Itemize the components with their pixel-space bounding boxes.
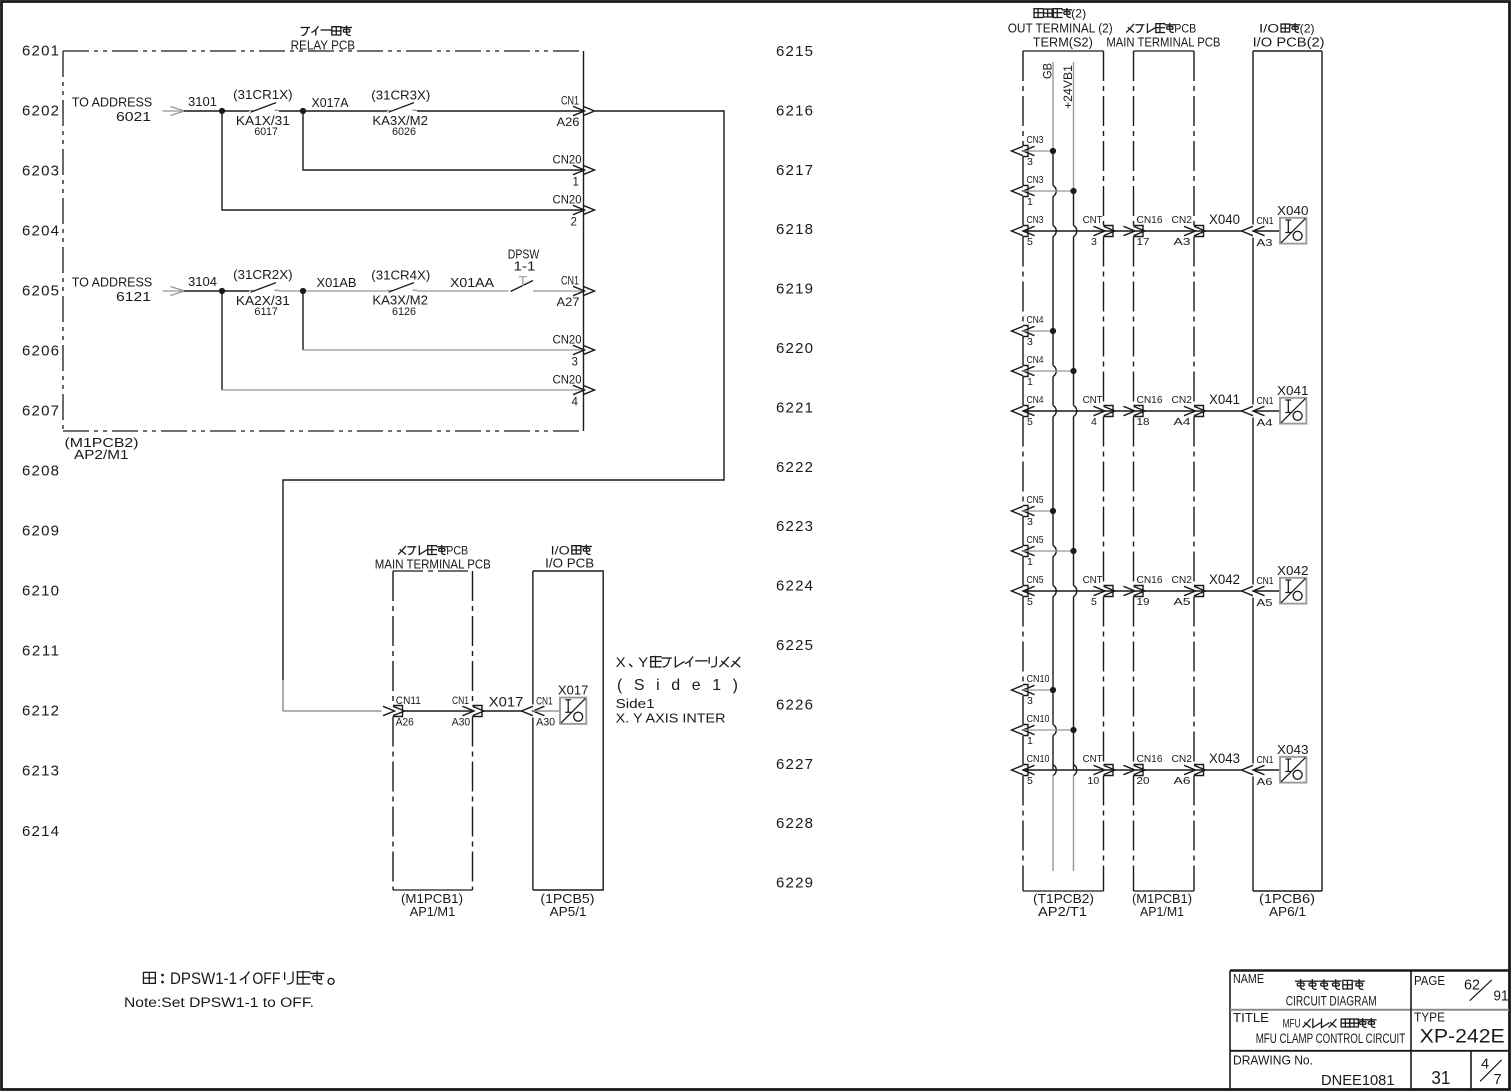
wire from CN1 A26 down to main terminal PCB CN11 A26: [283, 111, 724, 680]
svg-text:X: X: [616, 655, 626, 670]
svg-text:62: 62: [1464, 978, 1480, 994]
svg-text:CN16: CN16: [1137, 214, 1163, 226]
svg-text:6208: 6208: [22, 463, 59, 480]
svg-text:(31CR1X): (31CR1X): [233, 87, 293, 102]
wire to CN1 A26: [417, 110, 584, 112]
connector CN16 pin 20 into main terminal PCB: [1124, 765, 1136, 774]
signal row X043: CN10 pin 5 through CNT 10: [1012, 765, 1024, 774]
svg-text:NAME: NAME: [1233, 972, 1264, 986]
svg-text:3: 3: [1027, 336, 1033, 348]
svg-text:TYPE: TYPE: [1414, 1011, 1445, 1025]
svg-text:6227: 6227: [776, 756, 813, 773]
svg-text:A3: A3: [1257, 237, 1273, 249]
svg-text:5: 5: [1027, 416, 1033, 428]
connector CN2 pin A4 out of main terminal PCB: [1184, 406, 1196, 415]
connector CN10 pin 3 from GB bus: [1012, 685, 1024, 694]
connector pin CN20 pin2: [573, 205, 585, 214]
connector CN3 pin 1 from +24VB1 bus: [1012, 186, 1024, 195]
input arrow from address 6121: [163, 290, 184, 292]
wire X01AB: [279, 290, 387, 292]
svg-text:A5: A5: [1257, 597, 1273, 609]
connector pin CN1 A27 (relay PCB edge): [573, 286, 585, 295]
connector CNT pin 5 out of terminal box: [1094, 586, 1106, 595]
svg-text:A30: A30: [452, 717, 471, 729]
relay contact 31CR4X (KA3X/M2): [387, 290, 392, 292]
wire CN1 to X042 I/O module: [1253, 590, 1280, 592]
svg-text:X. Y AXIS INTER: X. Y AXIS INTER: [616, 712, 726, 726]
svg-text:TO ADDRESS: TO ADDRESS: [72, 95, 153, 110]
svg-text:6205: 6205: [22, 283, 59, 300]
svg-text:CN20: CN20: [553, 375, 582, 387]
svg-text:X042: X042: [1209, 572, 1240, 587]
svg-text:(31CR4X): (31CR4X): [371, 268, 430, 283]
svg-text:AP2/M1: AP2/M1: [74, 447, 129, 462]
svg-text:CN5: CN5: [1027, 494, 1044, 506]
svg-text:CN16: CN16: [1137, 574, 1163, 586]
connector CN3 pin 3 from GB bus: [1012, 146, 1024, 155]
svg-text:6226: 6226: [776, 696, 813, 713]
svg-text:6228: 6228: [776, 815, 813, 832]
svg-text:17: 17: [1137, 236, 1150, 248]
svg-text:(31CR3X): (31CR3X): [371, 88, 430, 103]
svg-text:X017: X017: [489, 694, 524, 710]
wire CN1 to X040 I/O module: [1253, 230, 1280, 232]
svg-text:MFU CLAMP CONTROL CIRCUIT: MFU CLAMP CONTROL CIRCUIT: [1256, 1031, 1406, 1046]
main terminal PCB boundary box (M1PCB1): [393, 570, 473, 572]
signal row X041: CN4 pin 5 through CNT 4: [1012, 406, 1024, 415]
svg-text:CN4: CN4: [1027, 314, 1044, 326]
svg-text:3: 3: [1027, 695, 1033, 707]
svg-text:CN1: CN1: [452, 695, 469, 707]
svg-text:4: 4: [1091, 416, 1097, 428]
connector CNT pin 3 out of terminal box: [1094, 226, 1106, 235]
svg-text:I/O: I/O: [551, 544, 570, 558]
svg-text:6201: 6201: [22, 43, 59, 60]
wire CN1 to X043 I/O module: [1253, 769, 1280, 771]
svg-text:6202: 6202: [22, 103, 59, 120]
svg-text:3: 3: [1027, 156, 1033, 168]
svg-text:1: 1: [1027, 196, 1033, 208]
connector CN10 pin 1 from +24VB1 bus: [1012, 725, 1024, 734]
svg-text:A3: A3: [1174, 236, 1191, 248]
svg-text:PAGE: PAGE: [1414, 974, 1445, 988]
svg-text:CN1: CN1: [536, 696, 553, 708]
wire X041 between boards: [1194, 410, 1242, 412]
signal row X042: CN5 pin 5 through CNT 5: [1012, 586, 1024, 595]
svg-text:91: 91: [1494, 989, 1509, 1005]
svg-text:4: 4: [1481, 1057, 1489, 1073]
svg-text:X041: X041: [1209, 392, 1240, 407]
svg-text:CN3: CN3: [1027, 134, 1044, 146]
svg-text:5: 5: [1027, 596, 1033, 608]
connector CN16 pin 18 into main terminal PCB: [1124, 406, 1136, 415]
connector CN5 pin 1 from +24VB1 bus: [1012, 546, 1024, 555]
svg-text:CN11: CN11: [396, 695, 421, 707]
wire tap X01AB down to CN20-3: [302, 291, 304, 350]
svg-text:X01AB: X01AB: [317, 275, 357, 290]
svg-text:A4: A4: [1257, 417, 1273, 429]
bus GB main segment with hops: [1052, 151, 1054, 186]
svg-text:1: 1: [1027, 376, 1033, 388]
svg-text:6117: 6117: [254, 306, 278, 318]
svg-text:6229: 6229: [776, 875, 813, 892]
wire tap 3101 down to CN20-2: [222, 111, 584, 210]
svg-text:A4: A4: [1174, 416, 1191, 428]
svg-text:6207: 6207: [22, 403, 59, 420]
svg-text:CN20: CN20: [553, 335, 582, 347]
svg-text:TERM(S2): TERM(S2): [1033, 35, 1093, 50]
wire CN11 to CN1 inside main terminal PCB: [403, 710, 473, 712]
svg-text:CN1: CN1: [1257, 575, 1274, 587]
relay PCB title: [301, 27, 310, 29]
svg-text:X040: X040: [1277, 203, 1309, 218]
svg-text:CN16: CN16: [1137, 753, 1163, 765]
input arrow from address 6021: [163, 110, 184, 112]
svg-text:CN2: CN2: [1172, 574, 1193, 586]
I/O module X040: [1280, 218, 1306, 244]
svg-text:19: 19: [1137, 596, 1150, 608]
wire CN16 to CN2 inside main terminal PCB: [1134, 410, 1195, 412]
svg-text:CNT: CNT: [1083, 753, 1104, 765]
svg-text:CN1: CN1: [561, 276, 579, 288]
svg-text:CN4: CN4: [1027, 394, 1044, 406]
svg-text:10: 10: [1088, 775, 1100, 787]
svg-text:CN3: CN3: [1027, 214, 1044, 226]
svg-text:6021: 6021: [116, 109, 151, 124]
svg-text:CN5: CN5: [1027, 574, 1044, 586]
svg-text:(Side1): (Side1): [617, 677, 738, 694]
svg-text:6222: 6222: [776, 459, 813, 476]
connector CN16 pin 19 into main terminal PCB: [1124, 586, 1136, 595]
wire CNT to CN16: [1104, 410, 1134, 412]
svg-text:A6: A6: [1257, 776, 1273, 788]
connector pin CN1 A30 out of main terminal PCB: [463, 706, 475, 715]
relay contact 31CR1X (KA1X/31): [249, 110, 254, 112]
svg-text:6206: 6206: [22, 343, 59, 360]
svg-text:OUT TERMINAL (2): OUT TERMINAL (2): [1008, 21, 1113, 36]
svg-text:X042: X042: [1277, 563, 1309, 578]
svg-text:X041: X041: [1277, 383, 1309, 398]
note: set DPSW1-1 to OFF (japanese): [161, 974, 164, 977]
svg-text:A5: A5: [1174, 596, 1191, 608]
svg-text:I/O PCB: I/O PCB: [545, 557, 594, 571]
svg-text:A26: A26: [396, 717, 414, 729]
svg-text:CNT: CNT: [1083, 214, 1104, 226]
svg-text:DPSW1-1: DPSW1-1: [170, 970, 237, 988]
wire CN16 to CN2 inside main terminal PCB: [1134, 590, 1195, 592]
svg-text:CN10: CN10: [1027, 713, 1050, 725]
connector CNT pin 4 out of terminal box: [1094, 406, 1106, 415]
wire X042 between boards: [1194, 590, 1242, 592]
connector CN2 pin A3 out of main terminal PCB: [1184, 226, 1196, 235]
svg-text:I/O PCB(2): I/O PCB(2): [1253, 35, 1325, 50]
svg-text:1: 1: [1027, 556, 1033, 568]
connector CN1 A3 into I/O PCB(2): [1242, 226, 1254, 235]
svg-text:CN2: CN2: [1172, 753, 1193, 765]
svg-text:31: 31: [1431, 1068, 1450, 1088]
svg-text:4: 4: [572, 397, 579, 409]
svg-text:6214: 6214: [22, 823, 59, 840]
svg-text:6216: 6216: [776, 102, 813, 119]
svg-text:CN3: CN3: [1027, 174, 1044, 186]
svg-text:A27: A27: [557, 297, 580, 309]
svg-text:2: 2: [571, 217, 577, 229]
connector CN16 pin 17 into main terminal PCB: [1124, 226, 1136, 235]
svg-text:CN1: CN1: [1257, 215, 1274, 227]
svg-text:AP1/M1: AP1/M1: [410, 904, 456, 919]
svg-text:AP2/T1: AP2/T1: [1038, 904, 1087, 919]
svg-text:Note:Set DPSW1-1 to OFF.: Note:Set DPSW1-1 to OFF.: [124, 995, 314, 1010]
svg-text:CN20: CN20: [553, 195, 582, 207]
node junction X01AB: [300, 288, 306, 294]
svg-text:CN16: CN16: [1137, 394, 1163, 406]
svg-text:6203: 6203: [22, 163, 59, 180]
svg-text:X040: X040: [1209, 212, 1240, 227]
svg-text:XP-242E: XP-242E: [1420, 1027, 1505, 1048]
svg-text:6210: 6210: [22, 583, 59, 600]
connector CN5 pin 3 from GB bus: [1012, 506, 1024, 515]
main terminal PCB(right) boundary box (M1PCB1): [1134, 50, 1195, 52]
wire CNT to CN16: [1104, 590, 1134, 592]
svg-text:5: 5: [1027, 775, 1033, 787]
connector pin CN20 pin1: [573, 165, 585, 174]
svg-text:6218: 6218: [776, 221, 813, 238]
svg-text:TITLE: TITLE: [1233, 1011, 1269, 1025]
svg-text:DNEE1081: DNEE1081: [1321, 1072, 1395, 1089]
svg-text:1-1: 1-1: [514, 259, 536, 274]
connector CN4 pin 3 from GB bus: [1012, 326, 1024, 335]
connector CN4 pin 1 from +24VB1 bus: [1012, 366, 1024, 375]
svg-text:CN1: CN1: [1257, 395, 1274, 407]
svg-text:6223: 6223: [776, 518, 813, 535]
connector CN2 pin A5 out of main terminal PCB: [1184, 586, 1196, 595]
svg-text:6209: 6209: [22, 523, 59, 540]
svg-text:DRAWING No.: DRAWING No.: [1233, 1053, 1313, 1068]
wire to CN1 A27: [533, 290, 584, 292]
connector pin CN11 A26 into main terminal PCB: [383, 706, 395, 715]
connector CN2 pin A6 out of main terminal PCB: [1184, 765, 1196, 774]
svg-text:3101: 3101: [188, 94, 217, 109]
I/O PCB(2) boundary box (1PCB6): [1253, 50, 1322, 52]
wire CNT to CN16: [1104, 230, 1134, 232]
svg-text:PCB: PCB: [446, 545, 468, 558]
svg-text:(31CR2X): (31CR2X): [233, 267, 293, 282]
node junction at 3101: [219, 108, 225, 114]
svg-text:18: 18: [1137, 416, 1150, 428]
svg-text:CN20: CN20: [553, 155, 582, 167]
svg-text:MFU: MFU: [1283, 1018, 1301, 1031]
I/O PCB boundary box (1PCB5): [533, 571, 603, 890]
svg-text:6026: 6026: [392, 126, 416, 138]
svg-text:CN10: CN10: [1027, 673, 1050, 685]
svg-text:A26: A26: [557, 117, 580, 129]
svg-text:6220: 6220: [776, 340, 813, 357]
svg-text:TO ADDRESS: TO ADDRESS: [72, 275, 153, 290]
svg-text:CNT: CNT: [1083, 394, 1104, 406]
svg-text:5: 5: [1027, 236, 1033, 248]
connector CN1 A4 into I/O PCB(2): [1242, 406, 1254, 415]
svg-text:(2): (2): [1071, 8, 1086, 21]
bus +24VB1 main segment with hops: [1073, 191, 1075, 226]
svg-text:CN10: CN10: [1027, 753, 1050, 765]
I/O module X042: [1280, 578, 1306, 604]
svg-text:6017: 6017: [254, 126, 278, 138]
svg-text:6212: 6212: [22, 703, 59, 720]
connector CNT pin 10 out of terminal box: [1094, 765, 1106, 774]
svg-text:3104: 3104: [188, 274, 217, 289]
I/O module X017: [560, 698, 586, 724]
svg-text:7: 7: [1494, 1072, 1502, 1088]
svg-text:Side1: Side1: [616, 697, 655, 711]
svg-text:AP1/M1: AP1/M1: [1140, 904, 1184, 919]
svg-text:X01AA: X01AA: [450, 275, 494, 290]
wire CN1 to X041 I/O module: [1253, 410, 1280, 412]
svg-text:CN5: CN5: [1027, 534, 1044, 546]
svg-text:A30: A30: [536, 717, 555, 729]
connector pin CN20 pin4: [573, 385, 585, 394]
svg-text:CN2: CN2: [1172, 394, 1193, 406]
wire CN16 to CN2 inside main terminal PCB: [1134, 230, 1195, 232]
svg-text:AP5/1: AP5/1: [550, 904, 587, 919]
svg-text:CN1: CN1: [1257, 754, 1274, 766]
svg-text:A6: A6: [1174, 775, 1191, 787]
svg-text:3: 3: [572, 357, 578, 369]
svg-text:6224: 6224: [776, 578, 813, 595]
wire X040 between boards: [1194, 230, 1242, 232]
relay contact 31CR2X (KA2X/31): [249, 290, 254, 292]
svg-text:+24VB1: +24VB1: [1061, 65, 1075, 109]
svg-text:CN2: CN2: [1172, 214, 1193, 226]
relay PCB boundary box (M1PCB2): [63, 50, 584, 52]
wire X01AA: [417, 290, 509, 292]
svg-text:6204: 6204: [22, 223, 59, 240]
svg-text:6213: 6213: [22, 763, 59, 780]
svg-text:X017: X017: [558, 682, 589, 697]
svg-text:6217: 6217: [776, 162, 813, 179]
svg-text:3: 3: [1027, 516, 1033, 528]
svg-text:6221: 6221: [776, 399, 813, 416]
svg-text:Y: Y: [638, 655, 648, 670]
svg-text:6225: 6225: [776, 637, 813, 654]
svg-text:1: 1: [1027, 735, 1033, 747]
wire CN1 to X017 I/O module: [533, 710, 560, 712]
dip switch DPSW 1-1: [511, 281, 534, 292]
connector CN1 A5 into I/O PCB(2): [1242, 586, 1254, 595]
wire CNT to CN16: [1104, 769, 1134, 771]
svg-text:X043: X043: [1209, 751, 1240, 766]
svg-text:CNT: CNT: [1083, 574, 1104, 586]
connector pin CN1 A30 into I/O PCB: [521, 706, 533, 715]
node junction at 3104: [219, 288, 225, 294]
wire X017A: [279, 110, 387, 112]
signal row X040: CN3 pin 5 through CNT 3: [1012, 226, 1024, 235]
svg-text:CN1: CN1: [561, 96, 579, 108]
svg-text:6215: 6215: [776, 43, 813, 60]
svg-text:X017A: X017A: [312, 95, 349, 110]
relay contact 31CR3X (KA3X/M2): [387, 110, 392, 112]
svg-text:MAIN TERMINAL PCB: MAIN TERMINAL PCB: [375, 558, 491, 572]
connector pin CN1 A26 (relay PCB edge): [573, 106, 585, 115]
svg-text:X043: X043: [1277, 742, 1309, 757]
wire tap 3104 down to CN20-4: [221, 291, 223, 390]
svg-text:6219: 6219: [776, 281, 813, 298]
svg-text:20: 20: [1137, 775, 1150, 787]
svg-text:CN4: CN4: [1027, 354, 1044, 366]
svg-text:AP6/1: AP6/1: [1269, 904, 1306, 919]
node junction X017A: [300, 108, 306, 114]
svg-text:6126: 6126: [392, 306, 416, 318]
wire tap X017A down to CN20-1: [303, 111, 584, 170]
wire X043 between boards: [1194, 769, 1242, 771]
connector CN1 A6 into I/O PCB(2): [1242, 765, 1254, 774]
svg-text:1: 1: [573, 177, 579, 189]
I/O module X041: [1280, 398, 1306, 424]
I/O module X043: [1280, 757, 1306, 783]
title block frame: [1230, 969, 1509, 972]
svg-text:OFF: OFF: [252, 970, 280, 988]
svg-text:6121: 6121: [116, 289, 151, 304]
svg-text:RELAY PCB: RELAY PCB: [291, 38, 356, 53]
svg-text:MAIN TERMINAL PCB: MAIN TERMINAL PCB: [1106, 35, 1220, 50]
wire CN16 to CN2 inside main terminal PCB: [1134, 769, 1195, 771]
out terminal(2) boundary box (T1PCB2): [1023, 50, 1104, 52]
svg-text:5: 5: [1091, 596, 1097, 608]
connector pin CN20 pin3: [573, 345, 585, 354]
svg-text:3: 3: [1091, 236, 1097, 248]
svg-text:CIRCUIT DIAGRAM: CIRCUIT DIAGRAM: [1286, 994, 1377, 1009]
